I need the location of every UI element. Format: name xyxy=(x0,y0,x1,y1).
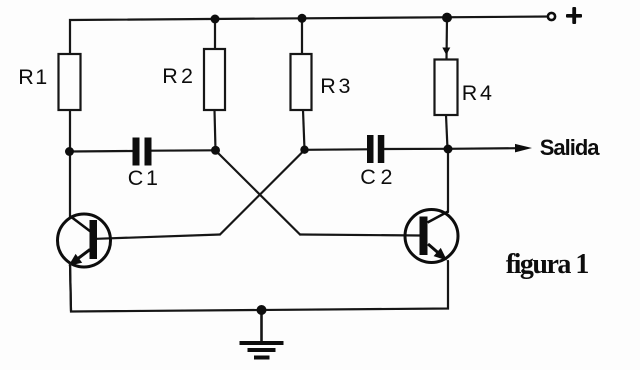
svg-text:R: R xyxy=(462,81,478,105)
svg-text:1: 1 xyxy=(35,65,47,89)
svg-text:R: R xyxy=(18,65,34,89)
svg-text:3: 3 xyxy=(339,74,351,98)
svg-text:4: 4 xyxy=(480,81,492,105)
svg-text:C: C xyxy=(128,166,144,190)
svg-text:2: 2 xyxy=(381,165,393,189)
svg-text:Salida: Salida xyxy=(540,135,601,160)
svg-text:R: R xyxy=(162,64,178,88)
svg-text:2: 2 xyxy=(181,64,193,88)
svg-text:1: 1 xyxy=(146,166,158,190)
svg-text:figura 1: figura 1 xyxy=(506,249,589,280)
svg-text:R: R xyxy=(320,74,336,98)
svg-text:C: C xyxy=(360,165,376,189)
